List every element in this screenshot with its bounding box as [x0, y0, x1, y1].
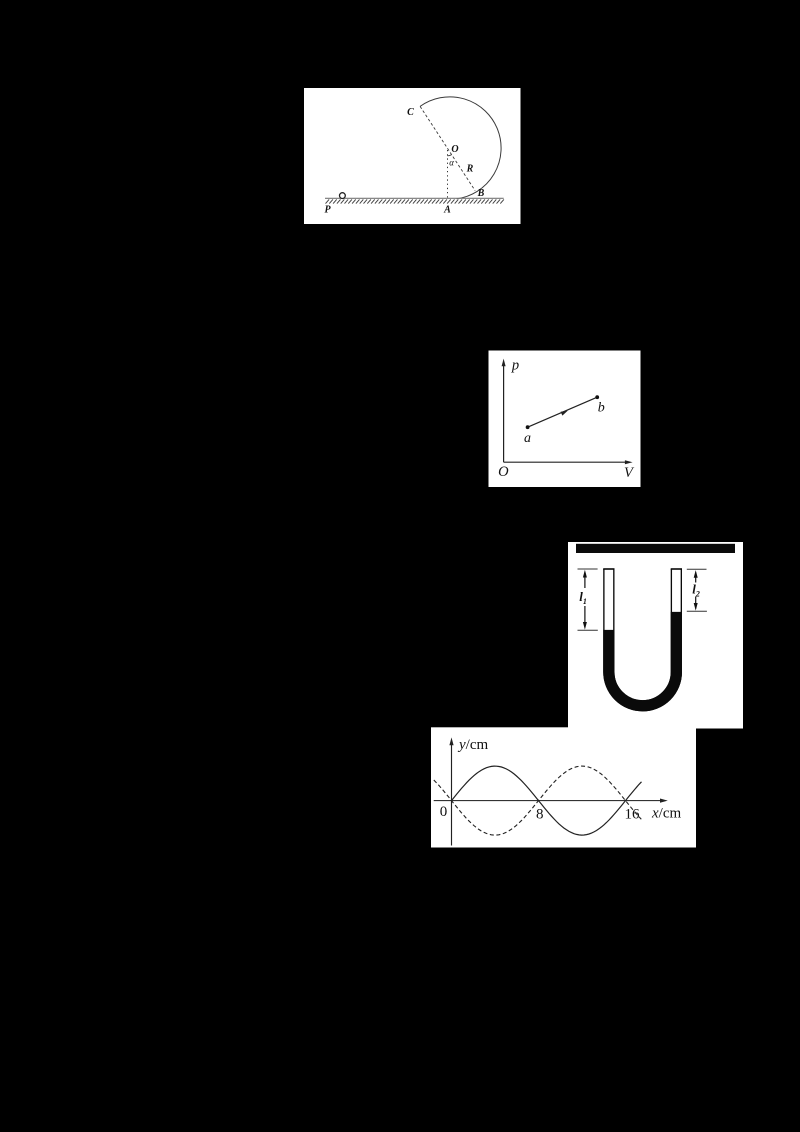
- p axis arrowhead: [502, 359, 506, 367]
- point a dot: [526, 425, 530, 429]
- y axis arrowhead: [449, 737, 453, 745]
- circle arc track: [420, 97, 501, 199]
- figure 1 panel (ball and circular track): [304, 88, 521, 224]
- l2 top tick: [687, 568, 707, 570]
- U-tube outer outline: [609, 569, 677, 706]
- svg-text:a: a: [524, 431, 531, 446]
- svg-text:O: O: [451, 144, 458, 155]
- svg-text:C: C: [407, 107, 414, 118]
- solid wave curve: [452, 766, 642, 835]
- l2 up arrowhead: [694, 570, 698, 578]
- V axis line: [504, 461, 627, 463]
- svg-text:8: 8: [536, 806, 544, 822]
- l1 arrow lower shaft: [584, 606, 586, 627]
- l1 arrow upper shaft: [584, 573, 586, 589]
- mercury column: [609, 612, 677, 706]
- l2 down arrowhead: [694, 603, 698, 611]
- figure 4 panel (standing wave graph): [431, 727, 696, 847]
- figure 3 panel (U-tube with mercury): [568, 542, 743, 729]
- svg-text:A: A: [443, 204, 451, 215]
- l2 arrow lower shaft: [695, 597, 697, 609]
- l1 up arrowhead: [583, 570, 587, 578]
- svg-text:R: R: [466, 163, 474, 174]
- svg-text:O: O: [498, 464, 509, 480]
- svg-text:P: P: [324, 204, 331, 215]
- process line a to b: [528, 397, 598, 427]
- svg-text:y/cm: y/cm: [457, 737, 488, 753]
- dashed wave curve: [434, 766, 642, 835]
- l1 bottom tick: [578, 629, 598, 631]
- x axis line: [434, 800, 662, 802]
- left tube top cap: [603, 568, 614, 570]
- ball P: [340, 193, 346, 199]
- y axis line: [451, 742, 453, 846]
- ground hatching: [326, 199, 504, 203]
- svg-text:α: α: [449, 157, 454, 167]
- x axis arrowhead: [660, 799, 668, 803]
- svg-text:B: B: [477, 188, 485, 199]
- figure 2 panel (p-V diagram): [489, 351, 641, 488]
- svg-text:16: 16: [625, 806, 641, 822]
- dashed diameter C to B: [420, 106, 475, 190]
- black bar at top of figure 3: [576, 544, 735, 553]
- p axis line: [503, 365, 505, 463]
- l2 bottom tick: [687, 610, 707, 612]
- point b dot: [595, 395, 599, 399]
- dotted vertical O to A: [447, 150, 449, 198]
- svg-text:x/cm: x/cm: [651, 806, 681, 822]
- mid arrowhead on ab: [561, 411, 568, 416]
- U-tube inner bore (white): [609, 568, 677, 705]
- svg-text:0: 0: [440, 804, 448, 820]
- l1 top tick: [578, 568, 598, 570]
- right tube top cap: [671, 568, 682, 570]
- l1 down arrowhead: [583, 622, 587, 630]
- V axis arrowhead: [625, 460, 633, 464]
- angle alpha arc: [448, 155, 452, 156]
- svg-text:p: p: [511, 357, 519, 373]
- ground line: [325, 197, 504, 199]
- l2 arrow upper shaft: [695, 573, 697, 583]
- svg-text:b: b: [598, 401, 605, 416]
